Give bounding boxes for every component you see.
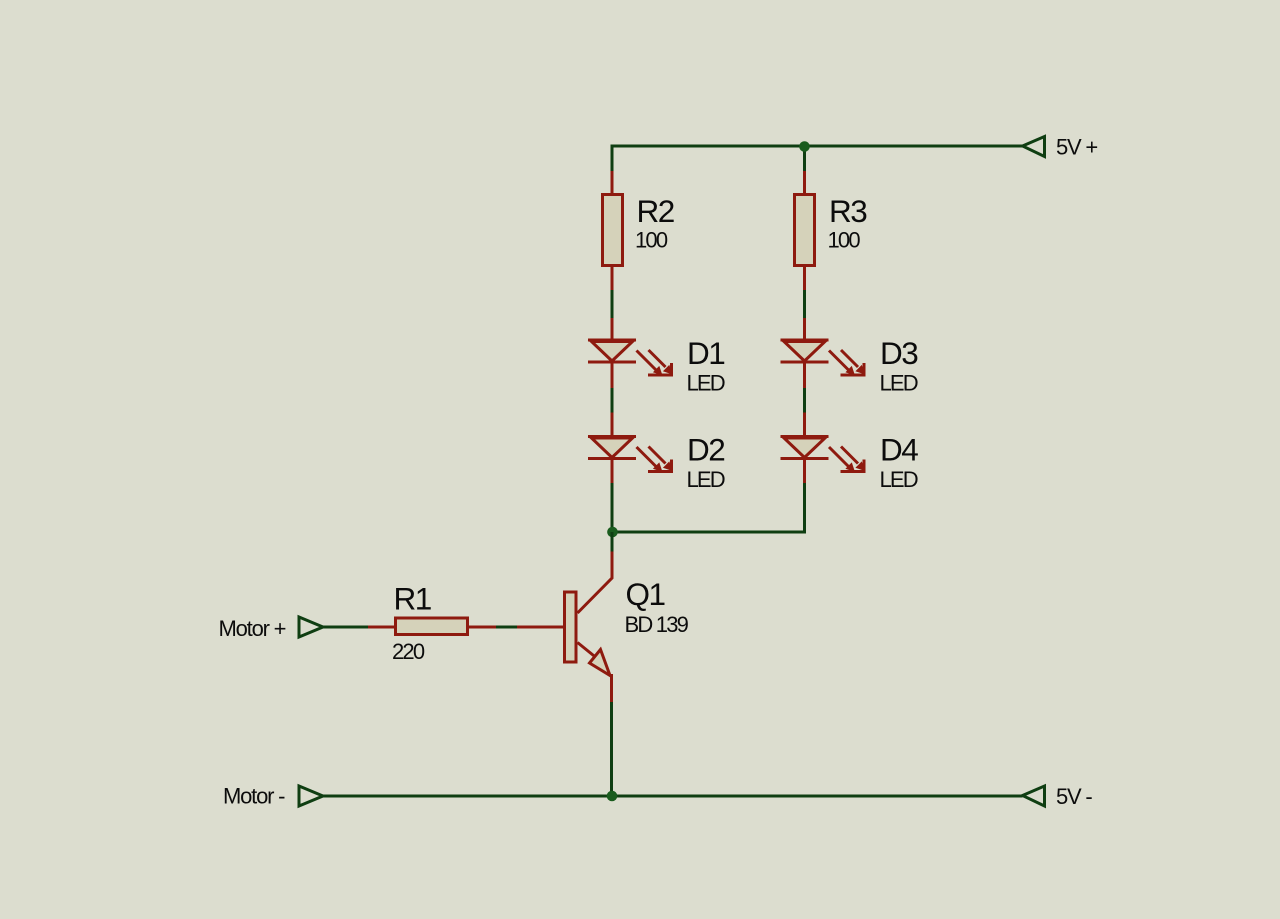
Q1 emitter pin [610, 674, 613, 702]
svg-text:R1: R1 [394, 581, 431, 617]
svg-text:5V -: 5V - [1056, 784, 1092, 809]
wire: D3 to D4 [803, 387, 806, 413]
node: LED junction [607, 527, 618, 538]
wire: R3 drop from top rail [803, 146, 806, 172]
terminal 5V- [1023, 786, 1045, 806]
wire: bottom rail [323, 795, 1023, 798]
svg-text:Motor +: Motor + [219, 616, 286, 641]
resistor R3 [795, 171, 815, 290]
terminal Motor+ [299, 617, 323, 637]
wire: top rail from R2 corner to 5V+ terminal [612, 146, 1023, 172]
svg-text:R3: R3 [829, 193, 867, 229]
Q1 emitter lead [578, 643, 597, 658]
svg-text:BD 139: BD 139 [625, 612, 689, 637]
terminal 5V+ [1023, 137, 1045, 157]
LED D2 [588, 413, 673, 484]
node: bottom rail junction [607, 791, 618, 802]
wire: R1 to Q1 base [495, 626, 518, 629]
LED D4 [781, 413, 866, 484]
resistor R1 [368, 618, 496, 635]
svg-text:Q1: Q1 [626, 576, 665, 612]
LED D3 [781, 318, 866, 388]
Q1 emitter arrow [590, 650, 611, 676]
svg-text:Motor -: Motor - [223, 784, 285, 809]
svg-text:D1: D1 [687, 335, 724, 371]
svg-text:D4: D4 [880, 432, 918, 468]
wire: R3 to D3 [803, 289, 806, 319]
svg-text:LED: LED [880, 467, 918, 492]
Q1 collector lead [578, 552, 613, 614]
resistor R2 [603, 171, 623, 290]
wire: D4 down and left to junction node [612, 482, 805, 532]
node: top rail junction [799, 141, 810, 152]
svg-text:100: 100 [828, 228, 861, 253]
Q1 base pin wire [517, 626, 563, 629]
svg-text:LED: LED [880, 371, 918, 396]
svg-text:100: 100 [635, 228, 668, 253]
terminal Motor- [299, 786, 323, 806]
svg-text:LED: LED [687, 467, 725, 492]
wire: Motor+ terminal to R1 [323, 626, 369, 629]
wire: Q1 emitter down to bottom rail [610, 701, 613, 796]
transistor Q1 [517, 552, 612, 703]
svg-text:D2: D2 [687, 432, 724, 468]
svg-text:LED: LED [687, 371, 725, 396]
svg-text:D3: D3 [880, 335, 918, 371]
wire: R2 to D1 [611, 289, 614, 319]
svg-text:220: 220 [392, 639, 425, 664]
svg-text:5V +: 5V + [1056, 135, 1097, 160]
wire: D2 down to junction node [611, 482, 614, 532]
Q1 base bar [565, 592, 577, 662]
wire: junction to Q1 collector [611, 532, 614, 553]
svg-text:R2: R2 [637, 193, 674, 229]
LED D1 [588, 318, 673, 388]
wire: D1 to D2 [611, 387, 614, 413]
